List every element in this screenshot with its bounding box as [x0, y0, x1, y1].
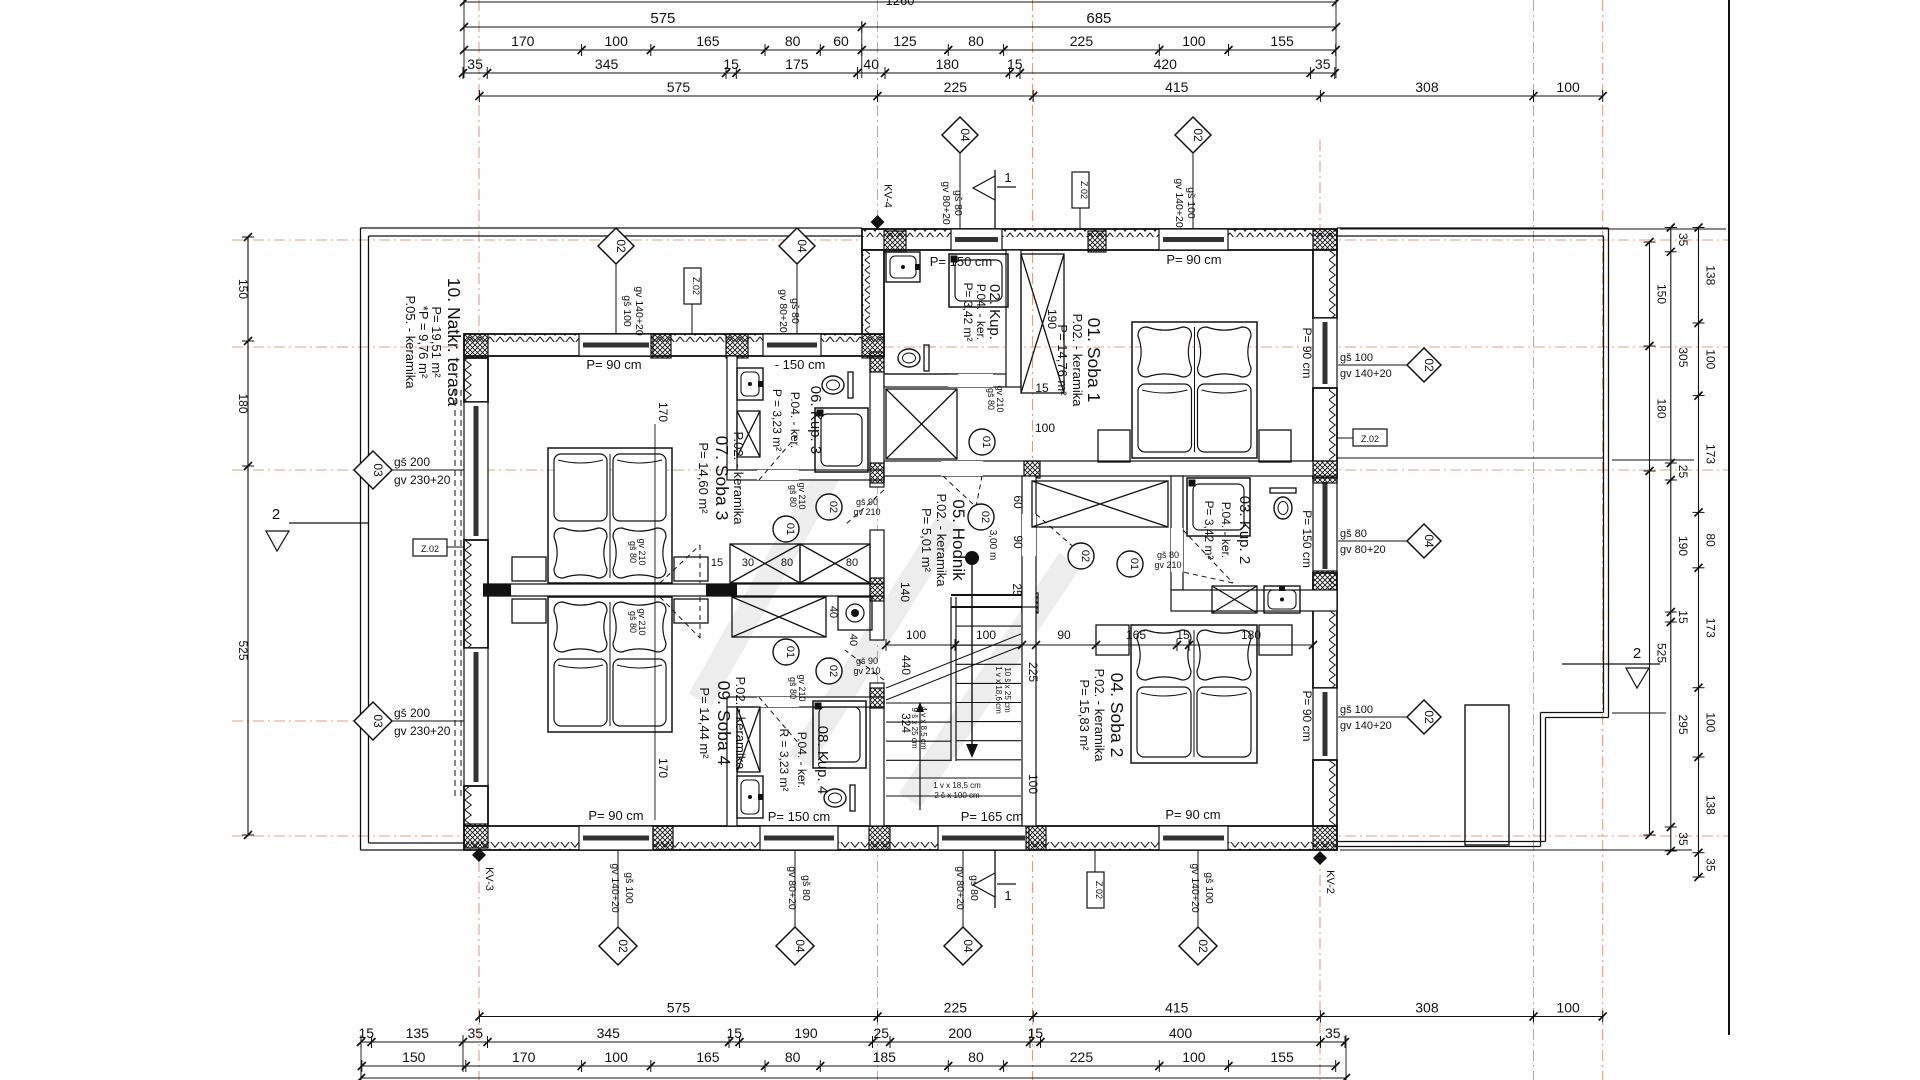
pier north 1 — [884, 231, 906, 252]
svg-text:gš 100: gš 100 — [1340, 704, 1373, 716]
svg-text:gv 210: gv 210 — [853, 666, 880, 676]
svg-text:P= 90 cm: P= 90 cm — [586, 357, 641, 372]
svg-text:308: 308 — [1415, 79, 1439, 95]
svg-text:190: 190 — [1045, 309, 1059, 329]
svg-text:gv 140+20: gv 140+20 — [1189, 863, 1201, 912]
svg-text:150: 150 — [402, 1049, 426, 1065]
pier south 3 — [1026, 826, 1046, 850]
svg-text:1 v x 18,5 cm: 1 v x 18,5 cm — [933, 781, 981, 790]
wall interior kup4 north — [727, 697, 884, 707]
svg-text:138: 138 — [1704, 265, 1718, 285]
grid axis horizontal y=347 — [232, 346, 1729, 348]
nightstand soba1 right — [1259, 430, 1291, 462]
dim row 575/685 — [464, 26, 1336, 28]
svg-text:gv 210: gv 210 — [797, 482, 807, 509]
wall interior kup3 east / corridor west — [870, 358, 884, 487]
svg-text:180: 180 — [936, 56, 960, 72]
svg-text:P.02. - keramika: P.02. - keramika — [934, 494, 949, 588]
wall exterior east lower — [1313, 760, 1337, 826]
terrace roof dashed line west — [454, 390, 456, 800]
svg-text:100: 100 — [1182, 1049, 1206, 1065]
svg-text:2: 2 — [272, 506, 280, 523]
svg-text:04: 04 — [795, 239, 809, 253]
svg-text:415: 415 — [1165, 1000, 1189, 1016]
svg-text:P= 90 cm: P= 90 cm — [588, 808, 643, 823]
svg-text:25: 25 — [1676, 465, 1690, 479]
grid axis horizontal y=721 — [232, 720, 468, 722]
svg-text:P= 150 cm: P= 150 cm — [768, 809, 831, 824]
wardrobe soba3 b — [800, 544, 870, 583]
wall exterior west lower — [464, 786, 488, 826]
svg-text:04: 04 — [958, 128, 972, 142]
svg-text:gš 80: gš 80 — [952, 190, 964, 216]
label Z.02 top — [1072, 172, 1089, 208]
svg-text:15: 15 — [1176, 628, 1190, 642]
svg-text:gš 80: gš 80 — [1157, 550, 1179, 560]
marker KV-4 — [871, 215, 885, 229]
terrace outline right — [1337, 227, 1609, 229]
toilet kup4 — [850, 785, 855, 811]
svg-text:P.02. - keramika: P.02. - keramika — [1070, 314, 1085, 408]
wardrobe corridor — [886, 389, 957, 459]
svg-text:9 š x 25 cm: 9 š x 25 cm — [910, 708, 919, 749]
svg-text:08. Kup. 4: 08. Kup. 4 — [814, 726, 831, 794]
svg-text:80: 80 — [785, 33, 801, 49]
svg-text:190: 190 — [1676, 536, 1690, 556]
marker KV-3 — [472, 848, 486, 862]
grid axis vertical x=1602.7 — [1602, 0, 1604, 1080]
svg-text:295: 295 — [1676, 714, 1690, 734]
grid axis horizontal y=470 — [232, 469, 1729, 471]
svg-text:100: 100 — [1704, 712, 1718, 732]
svg-text:225: 225 — [1026, 662, 1040, 682]
svg-text:gv 210: gv 210 — [637, 608, 647, 635]
section marker 1 top — [994, 170, 996, 229]
svg-text:gv 80+20: gv 80+20 — [940, 181, 952, 225]
window marker 03 left a — [354, 451, 392, 489]
basin kup4 — [737, 776, 763, 818]
svg-text:03. Kup. 2: 03. Kup. 2 — [1236, 496, 1253, 564]
svg-text:gš 80: gš 80 — [628, 541, 638, 563]
pier north w2 — [726, 334, 748, 358]
svg-text:80: 80 — [968, 1049, 984, 1065]
window P90 east soba1 — [1313, 318, 1337, 388]
cabinet kup4 — [737, 707, 760, 772]
grid axis vertical x=479 — [478, 0, 480, 1080]
svg-text:09. Soba 4: 09. Soba 4 — [714, 681, 734, 766]
door central wall soba3 — [660, 545, 700, 583]
svg-text:P= 15,83 m²: P= 15,83 m² — [1077, 679, 1092, 751]
wall exterior north (east part) — [862, 229, 1337, 250]
window P90 north soba3 — [579, 334, 653, 356]
svg-text:gš 80: gš 80 — [789, 298, 801, 324]
svg-text:gš 200: gš 200 — [394, 455, 430, 469]
svg-text:60: 60 — [833, 33, 849, 49]
window marker 02 right b — [1407, 700, 1441, 734]
pier NW corner — [464, 334, 488, 358]
svg-text:P= 90 cm: P= 90 cm — [1165, 807, 1220, 822]
svg-text:gv 80+20: gv 80+20 — [1340, 544, 1386, 556]
svg-text:P= 90 cm: P= 90 cm — [1300, 690, 1314, 741]
wardrobe soba2 — [1032, 481, 1168, 527]
pier north w1 — [651, 334, 671, 358]
svg-text:165: 165 — [1126, 628, 1146, 642]
window marker 04 top — [942, 117, 978, 153]
wardrobe soba1 — [1021, 254, 1064, 393]
bed soba2 — [1131, 625, 1257, 763]
pier north 2 — [1088, 231, 1106, 252]
svg-text:100: 100 — [1556, 79, 1580, 95]
pier wallA low — [870, 688, 884, 708]
svg-text:15: 15 — [711, 557, 723, 569]
dim line interior soba3 — [654, 424, 656, 820]
grid axis vertical x=877.5 — [877, 0, 879, 1080]
svg-text:P.04. - ker.: P.04. - ker. — [788, 392, 802, 448]
svg-text:Z.02: Z.02 — [1094, 881, 1104, 899]
svg-text:P.04. - ker.: P.04. - ker. — [974, 284, 988, 340]
window marker 04 right — [1407, 524, 1441, 558]
svg-text:185: 185 — [873, 1049, 897, 1065]
window marker 04 top west — [779, 228, 815, 264]
svg-text:01. Soba 1: 01. Soba 1 — [1084, 318, 1104, 403]
wall interior kup3 south — [727, 470, 884, 480]
dim row top 575/225/415/308/100 — [479, 95, 1602, 97]
window marker 02 top — [1175, 117, 1211, 153]
svg-text:175: 175 — [785, 56, 809, 72]
svg-text:40: 40 — [847, 634, 859, 646]
svg-text:04: 04 — [1422, 534, 1436, 548]
svg-text:02: 02 — [827, 501, 839, 513]
svg-text:P= 90 cm: P= 90 cm — [1166, 252, 1221, 267]
pier north corner NE — [1313, 229, 1337, 252]
svg-text:gv 80+20: gv 80+20 — [777, 289, 789, 333]
svg-text:308: 308 — [1415, 1000, 1439, 1016]
window P150 north kup3 — [763, 334, 821, 356]
wall interior central soba3/soba4 — [483, 583, 884, 585]
wall exterior south — [464, 826, 1337, 850]
wall exterior east mid1 — [1313, 388, 1337, 478]
svg-text:04. Soba 2: 04. Soba 2 — [1107, 673, 1127, 758]
svg-text:190: 190 — [794, 1025, 818, 1041]
svg-text:345: 345 — [597, 1025, 621, 1041]
svg-text:100: 100 — [906, 628, 926, 642]
pier wallJ bottom — [1022, 593, 1038, 613]
grid axis vertical x=1533.5 — [1533, 0, 1535, 1080]
svg-text:01: 01 — [784, 646, 796, 658]
wall interior corridor east — [1022, 476, 1036, 611]
marker KV-2 — [1313, 851, 1327, 865]
label Z.02 west — [413, 539, 447, 556]
toilet kup1 — [924, 345, 929, 371]
svg-text:225: 225 — [944, 79, 968, 95]
svg-text:30: 30 — [742, 557, 754, 569]
svg-text:KV-2: KV-2 — [1324, 870, 1336, 894]
svg-text:35: 35 — [1325, 1025, 1341, 1041]
svg-text:gv 210: gv 210 — [1154, 560, 1181, 570]
svg-text:415: 415 — [1165, 79, 1189, 95]
dim row top segments 170..155 — [464, 49, 1336, 51]
svg-text:P= 3,42 m²: P= 3,42 m² — [1202, 500, 1216, 559]
svg-text:10 š x 25 cm: 10 š x 25 cm — [1003, 667, 1012, 713]
svg-text:02: 02 — [1422, 710, 1436, 724]
svg-text:P= 150 cm: P= 150 cm — [1300, 510, 1314, 568]
svg-text:165: 165 — [696, 1049, 720, 1065]
window P165 south hodnik — [938, 826, 1029, 850]
right dim chain 35/305/25/190/15/295/35 — [1670, 228, 1672, 852]
svg-text:225: 225 — [1070, 1049, 1094, 1065]
svg-text:01: 01 — [1128, 558, 1140, 570]
svg-text:80: 80 — [781, 557, 793, 569]
svg-text:35: 35 — [1704, 858, 1718, 872]
window P90 east soba2 — [1313, 688, 1337, 760]
svg-text:180: 180 — [1241, 628, 1261, 642]
basin kup3 — [737, 368, 763, 400]
svg-text:gv 80+20: gv 80+20 — [786, 866, 798, 910]
terrace planter right — [1465, 705, 1509, 845]
svg-text:4 v x 8,5 cm: 4 v x 8,5 cm — [919, 706, 928, 749]
svg-text:40: 40 — [863, 56, 879, 72]
basin kup1 — [886, 252, 920, 282]
door mark 02 kup3 — [816, 494, 842, 520]
svg-text:225: 225 — [1070, 33, 1094, 49]
dim row total 1260 (top, clipped) — [464, 1, 1336, 3]
window sliding door west 1 — [464, 402, 488, 540]
svg-text:gš 200: gš 200 — [394, 706, 430, 720]
wall interior soba1 south / corridor north — [884, 461, 1337, 476]
window marker 02 bottom a — [599, 927, 637, 965]
wall interior kup2 west — [1171, 476, 1183, 590]
window P150 north kup1 — [951, 229, 1002, 250]
door mark 02 kup2 — [1068, 543, 1094, 569]
window marker 02 right a — [1407, 348, 1441, 382]
svg-text:2 š x 100 cm: 2 š x 100 cm — [934, 791, 980, 800]
shower kup3 — [815, 408, 868, 472]
svg-text:Z.02: Z.02 — [421, 544, 439, 554]
svg-text:gš 100: gš 100 — [1185, 187, 1197, 219]
svg-text:P= 90 cm: P= 90 cm — [1300, 327, 1314, 378]
svg-text:1: 1 — [1004, 170, 1011, 185]
svg-text:gš 80: gš 80 — [1340, 528, 1367, 540]
svg-text:06. Kup. 3: 06. Kup. 3 — [807, 386, 824, 454]
dim extension lines top — [463, 2, 465, 78]
svg-text:03: 03 — [371, 714, 385, 728]
nightstand soba1 left — [1098, 430, 1130, 462]
svg-text:525: 525 — [1655, 643, 1669, 663]
svg-text:100: 100 — [605, 1049, 629, 1065]
boundary line right — [1728, 0, 1730, 1035]
window marker 02 bottom b — [1179, 927, 1217, 965]
svg-text:525: 525 — [236, 640, 250, 660]
wardrobe soba4 — [732, 597, 826, 637]
svg-text:02: 02 — [614, 239, 628, 253]
svg-text:15: 15 — [723, 56, 739, 72]
wall exterior east mid2 — [1313, 573, 1337, 688]
svg-text:Z.02: Z.02 — [1079, 181, 1089, 199]
svg-text:gš 80: gš 80 — [628, 611, 638, 633]
right dim chain 150/180/525 — [1649, 242, 1651, 835]
wall interior kup3 west — [727, 356, 737, 470]
window P150 south kup4 — [760, 826, 838, 850]
svg-text:gv 140+20: gv 140+20 — [609, 863, 621, 912]
window P90 south soba4 — [579, 826, 653, 850]
window P150 east kup2 — [1313, 478, 1337, 573]
door mark 02 corridor — [968, 504, 994, 530]
svg-text:gš 80: gš 80 — [788, 677, 798, 699]
cabinet kup3 — [737, 411, 760, 457]
svg-text:80: 80 — [968, 33, 984, 49]
svg-text:gv 80+20: gv 80+20 — [954, 866, 966, 910]
svg-text:100: 100 — [1182, 33, 1206, 49]
toilet kup2 — [1270, 488, 1296, 493]
svg-text:40: 40 — [827, 606, 839, 618]
svg-text:04: 04 — [961, 939, 975, 953]
label Z.02 right — [1353, 429, 1387, 446]
svg-text:gv 230+20: gv 230+20 — [394, 473, 451, 487]
svg-text:P= 5,01 m²: P= 5,01 m² — [919, 508, 934, 573]
svg-text:15: 15 — [1007, 56, 1023, 72]
section marker 1 bottom — [994, 850, 996, 908]
svg-text:gš 90: gš 90 — [856, 497, 878, 507]
svg-text:gš 100: gš 100 — [621, 295, 633, 327]
pier south 2 — [869, 826, 890, 850]
svg-text:gš 90: gš 90 — [856, 656, 878, 666]
nightstand soba2 right — [1259, 625, 1292, 655]
svg-text:575: 575 — [650, 10, 675, 27]
door mark 01 soba3 — [773, 516, 799, 542]
svg-text:170: 170 — [656, 758, 670, 778]
svg-text:gš 80: gš 80 — [788, 485, 798, 507]
svg-text:02: 02 — [1079, 550, 1091, 562]
svg-text:345: 345 — [595, 56, 619, 72]
washing machine — [838, 597, 872, 630]
svg-text:90: 90 — [1057, 628, 1071, 642]
svg-text:P= 150 cm: P= 150 cm — [930, 254, 993, 269]
svg-text:225: 225 — [944, 1000, 968, 1016]
svg-text:P= 14,76 m²: P= 14,76 m² — [1055, 324, 1070, 396]
svg-text:1260: 1260 — [886, 0, 915, 8]
wall exterior west middle — [464, 540, 488, 648]
svg-text:170: 170 — [656, 402, 670, 422]
bed soba3 — [548, 448, 672, 583]
svg-text:173: 173 — [1704, 618, 1718, 638]
svg-text:gv 140+20: gv 140+20 — [1340, 720, 1392, 732]
svg-text:35: 35 — [1676, 832, 1690, 846]
svg-text:135: 135 — [406, 1025, 430, 1041]
nightstand soba2 left — [1096, 625, 1129, 655]
dim row bottom 575/225/415/308/100 — [479, 1016, 1602, 1018]
svg-text:170: 170 — [511, 33, 535, 49]
nightstand soba3 right — [674, 557, 708, 581]
wall interior kup4 west — [727, 707, 737, 826]
svg-text:25: 25 — [1010, 583, 1024, 597]
bed soba4 — [548, 597, 672, 732]
svg-text:P.04. - ker.: P.04. - ker. — [795, 732, 809, 788]
stairs — [951, 594, 1022, 596]
pier east wall b — [1313, 571, 1337, 593]
svg-text:gv 140+20: gv 140+20 — [1340, 368, 1392, 380]
svg-text:35: 35 — [1676, 233, 1690, 247]
svg-text:P= 14,44 m²: P= 14,44 m² — [697, 687, 712, 759]
svg-text:35: 35 — [467, 56, 483, 72]
svg-text:P= 165 cm: P= 165 cm — [961, 809, 1024, 824]
svg-text:1 v x 18,6 cm: 1 v x 18,6 cm — [994, 666, 1003, 714]
window marker 02 top west — [598, 228, 634, 264]
svg-text:P.02. - keramika: P.02. - keramika — [733, 677, 748, 771]
svg-text:138: 138 — [1704, 795, 1718, 815]
wall exterior north (west wing) — [464, 334, 884, 356]
svg-text:gš 80: gš 80 — [800, 875, 812, 901]
svg-text:125: 125 — [893, 33, 917, 49]
wall exterior east upper — [1313, 250, 1337, 318]
pier SW corner — [464, 824, 488, 848]
svg-text:180: 180 — [1655, 398, 1669, 418]
svg-text:R = 3,23 m²: R = 3,23 m² — [777, 728, 791, 791]
pier corridor — [1024, 461, 1040, 478]
door mark 02 kup4 — [816, 658, 842, 684]
svg-text:P.05. - keramika: P.05. - keramika — [403, 296, 418, 390]
svg-text:gš 100: gš 100 — [1340, 352, 1373, 364]
svg-text:01: 01 — [980, 436, 992, 448]
svg-text:15: 15 — [1676, 610, 1690, 624]
svg-text:575: 575 — [667, 79, 691, 95]
window marker 04 bottom b — [944, 927, 982, 965]
svg-text:10. Natkr. terasa: 10. Natkr. terasa — [444, 278, 464, 407]
svg-text:P= 14,60 m²: P= 14,60 m² — [696, 442, 711, 514]
svg-text:173: 173 — [1704, 444, 1718, 464]
svg-text:02: 02 — [616, 939, 630, 953]
dim row bottom segments 150..155 — [362, 1065, 1336, 1067]
svg-text:100: 100 — [605, 33, 629, 49]
door mark 01 soba1 — [969, 429, 995, 455]
pier south 1 — [653, 826, 673, 850]
pier wallA centre — [870, 578, 884, 601]
window P90 north soba1 — [1159, 229, 1228, 250]
svg-text:100: 100 — [1026, 774, 1040, 794]
svg-text:80: 80 — [846, 557, 858, 569]
svg-text:02: 02 — [1191, 128, 1205, 142]
svg-text:100: 100 — [1035, 421, 1055, 435]
svg-text:15: 15 — [726, 1025, 742, 1041]
svg-text:04: 04 — [793, 939, 807, 953]
dim row bottom segments 15..35 — [361, 1041, 1345, 1043]
wall interior kup1 east — [1006, 250, 1021, 387]
grid axis horizontal y=836 — [232, 835, 1729, 837]
svg-text:200: 200 — [948, 1025, 972, 1041]
label Z.02 west wing top — [684, 268, 701, 304]
window sliding door west 2 — [464, 648, 488, 786]
svg-text:150: 150 — [236, 279, 250, 299]
door central wall soba4 — [660, 597, 700, 638]
pier wallA top — [870, 352, 884, 372]
svg-text:Z.02: Z.02 — [691, 277, 701, 295]
svg-text:80: 80 — [1704, 533, 1718, 547]
svg-text:gv 210: gv 210 — [637, 538, 647, 565]
svg-text:180: 180 — [236, 393, 250, 413]
wall exterior west upper — [464, 358, 488, 402]
svg-text:07. Soba 3: 07. Soba 3 — [712, 436, 732, 521]
svg-text:P.04. - ker.: P.04. - ker. — [1219, 502, 1233, 558]
pier wallA mid — [870, 463, 884, 483]
svg-text:60: 60 — [1011, 495, 1025, 509]
svg-text:400: 400 — [1169, 1025, 1193, 1041]
svg-text:KV-4: KV-4 — [882, 184, 894, 208]
shower kup1 — [949, 254, 1008, 307]
svg-text:90: 90 — [1011, 535, 1025, 549]
svg-text:100: 100 — [1556, 1000, 1580, 1016]
svg-text:gv 210: gv 210 — [797, 674, 807, 701]
window marker 04 bottom a — [776, 927, 814, 965]
pier east wall a — [1313, 461, 1337, 483]
